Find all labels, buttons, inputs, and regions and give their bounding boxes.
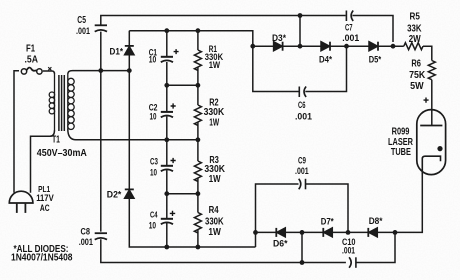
svg-text:1W: 1W [208,227,221,238]
wire x300 vertical [299,16,301,47]
svg-text:1W: 1W [209,174,221,185]
svg-text:33K: 33K [407,24,422,35]
svg-text:R6: R6 [411,59,421,70]
svg-text:.001: .001 [342,246,355,256]
plus marks [170,49,429,216]
svg-text:.001: .001 [79,237,93,247]
diode D8 [368,228,377,237]
wire bottom rail right [356,232,395,262]
wire y247 to D6 row [255,232,257,247]
svg-text:T1: T1 [52,135,60,146]
svg-text:10: 10 [150,168,157,178]
capacitor C8 [95,233,107,239]
transformer T1 primary [49,74,54,130]
fuse F1 [21,68,42,75]
resistor R5 [404,43,423,50]
svg-text:D7*: D7* [321,217,334,228]
C4 plus [170,211,175,216]
laser tube V1 [417,110,446,175]
capacitor C6 [299,87,306,98]
resistor R3 [194,161,201,181]
svg-text:10: 10 [150,112,157,122]
tube plus [424,98,429,103]
svg-text:.5A: .5A [25,55,39,66]
svg-text:R5: R5 [410,12,421,23]
wire tube cathode down [395,175,422,233]
svg-text:330K: 330K [204,107,225,118]
capacitor C3 [161,166,173,171]
svg-text:F1: F1 [26,44,35,55]
resistor R2 [194,105,201,125]
svg-text:TUBE: TUBE [391,147,411,158]
wire C9 branch [256,184,299,232]
svg-text:D2*: D2* [107,190,122,201]
svg-text:D3*: D3* [272,33,286,44]
svg-text:.001: .001 [295,166,309,176]
svg-text:10: 10 [149,55,157,65]
svg-text:D1*: D1* [110,47,124,58]
capacitor C9 [299,179,306,190]
svg-text:1W: 1W [209,118,219,129]
diode D7 [323,228,332,237]
svg-text:330K: 330K [205,217,224,228]
transformer T1 secondary [68,74,74,130]
transformer T1 core [59,75,64,131]
svg-text:2W: 2W [409,34,421,45]
svg-text:450V–30mA: 450V–30mA [37,147,87,159]
svg-text:R4: R4 [209,205,219,216]
diode D5 [369,42,378,51]
diode D4 [321,42,330,51]
capacitor C1 [161,57,173,62]
svg-text:C4: C4 [150,210,158,220]
wire rail y31 [129,31,253,47]
C2 plus [171,103,176,108]
capacitor C5 [95,25,107,31]
capacitor C4 [161,219,173,224]
diode D2 [125,189,134,198]
wire R6 to tube [431,80,433,126]
fuse tick mark [48,67,51,70]
svg-text:AC: AC [40,203,50,214]
wire rail y85 [167,84,198,86]
svg-text:R099: R099 [392,126,410,137]
svg-text:C3: C3 [150,157,158,167]
wire D6-D7 junction down [301,232,303,262]
svg-text:D6*: D6* [273,239,288,250]
svg-text:D8*: D8* [369,216,383,227]
resistor R1 [194,50,201,70]
svg-text:D5*: D5* [369,55,382,66]
svg-text:.001: .001 [342,33,360,44]
wire R column [197,31,199,50]
cathode [422,156,440,174]
wire secondary bottom rail [68,129,198,140]
wire plug right to primary [31,130,55,193]
svg-text:D4*: D4* [319,55,332,66]
diode D6 [276,228,285,237]
plug PL1 [9,191,33,213]
wire C5-C8 column [100,32,102,232]
svg-text:C6: C6 [298,100,306,110]
wire top rail [101,16,346,26]
svg-text:C5: C5 [77,15,86,26]
resistor R4 [194,213,201,233]
svg-text:.001: .001 [295,111,312,121]
diode D1 [125,46,134,55]
wire secondary top lead [68,71,130,74]
svg-text:117V: 117V [36,193,54,203]
C1 plus [174,49,179,54]
svg-text:1N4007/1N5408: 1N4007/1N5408 [11,253,73,264]
svg-text:5W: 5W [410,81,424,92]
svg-text:C8: C8 [81,227,91,238]
wire C6 branch [253,46,299,91]
svg-text:10: 10 [149,221,156,231]
wire fuse to primary [43,71,55,74]
wire D1-D2 column [128,31,130,46]
resistor R6 [428,61,435,80]
tube dot [437,146,442,151]
svg-text:.001: .001 [76,26,90,36]
svg-text:75K: 75K [409,70,426,81]
wire rail y194 [167,193,198,195]
wire R5 to R6 [423,46,432,60]
wire C column [166,31,168,57]
capacitor C2 [161,112,173,117]
wire top diode row [253,45,274,47]
diode D3 [274,42,283,51]
C3 plus [171,158,176,163]
anode plate [420,125,442,127]
wire plug left to fuse [14,71,19,193]
svg-text:1W: 1W [209,60,221,70]
capacitor C10 [349,257,356,268]
wire bottom diode row [256,231,276,233]
capacitor C7 [346,11,353,22]
